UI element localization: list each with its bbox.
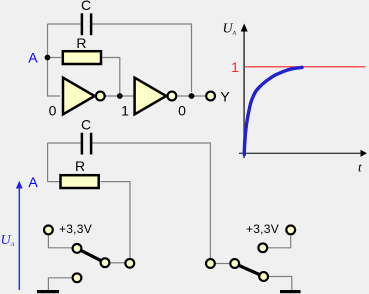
svg-text:C: C (81, 0, 91, 13)
svg-text:C: C (81, 117, 91, 133)
svg-text:0: 0 (178, 103, 186, 119)
svg-text:+3,3V: +3,3V (59, 222, 92, 236)
svg-text:A: A (28, 174, 38, 190)
svg-text:t: t (358, 159, 362, 174)
svg-text:Y: Y (220, 88, 230, 104)
svg-text:A: A (28, 49, 38, 65)
svg-text:R: R (76, 35, 86, 51)
svg-text:1: 1 (121, 103, 129, 119)
svg-text:+3,3V: +3,3V (246, 222, 279, 236)
svg-text:1: 1 (231, 59, 239, 75)
svg-text:R: R (75, 158, 85, 174)
svg-text:0: 0 (49, 103, 57, 119)
